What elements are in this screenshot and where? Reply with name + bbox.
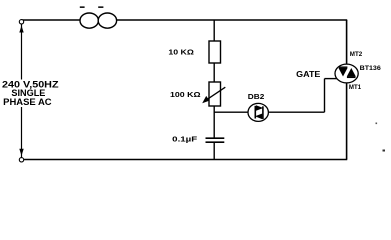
svg-text:DB2: DB2 — [248, 94, 265, 101]
diac D1 left bar — [254, 106, 256, 119]
node terminal top-left circle — [19, 20, 23, 24]
top stray dash right — [98, 6, 103, 8]
svg-text:BT136: BT136 — [360, 65, 382, 72]
capacitor C1 bottom plate — [206, 141, 225, 143]
wire top rail left segment — [22, 19, 80, 21]
wire triac MT2 vertical — [346, 20, 348, 65]
AC source arrowhead down — [19, 149, 23, 156]
wire triac MT1 vertical — [346, 83, 348, 160]
diac D1 circle — [248, 103, 268, 121]
wire between resistor and potentiometer — [213, 63, 215, 82]
stray dot bottom right — [383, 150, 386, 152]
AC source arrowhead up — [19, 26, 23, 33]
wire middle branch top — [213, 20, 215, 41]
triac Q1 circle — [335, 64, 358, 83]
wire diac to gate corner — [268, 111, 324, 113]
svg-text:MT2: MT2 — [350, 51, 363, 58]
capacitor C1 top plate — [206, 137, 225, 139]
triac Q1 bottom bar — [347, 76, 356, 78]
svg-text:0.1µF: 0.1µF — [172, 135, 198, 144]
lamp L1 bulb circle left — [80, 13, 98, 28]
resistor R1 box — [209, 41, 221, 63]
wire gate stub to triac — [325, 78, 338, 80]
stray dot right of MT1 — [376, 123, 378, 125]
triac Q1 left triangle pointing down — [339, 68, 348, 77]
triac Q1 right triangle pointing up — [347, 68, 356, 77]
svg-text:10 KΩ: 10 KΩ — [168, 48, 194, 57]
text-gap mask behind source label — [0, 80, 60, 108]
wire capacitor to bottom rail — [213, 142, 215, 159]
svg-text:MT1: MT1 — [349, 84, 362, 91]
diac D1 triangle upper pointing right — [256, 105, 263, 111]
wire potentiometer to capacitor — [213, 106, 215, 138]
wire AC source vertical line — [21, 24, 23, 158]
svg-text:100 KΩ: 100 KΩ — [170, 90, 201, 99]
diac D1 right bar — [262, 106, 264, 119]
svg-text:PHASE AC: PHASE AC — [3, 97, 52, 107]
wire gate vertical — [324, 79, 326, 113]
lamp L1 bulb circle right — [98, 13, 116, 28]
svg-text:GATE: GATE — [296, 70, 321, 79]
wire junction to diac — [214, 111, 248, 113]
potentiometer R2 wiper arrow — [205, 87, 226, 101]
triac Q1 top bar — [339, 66, 348, 68]
wire bottom rail — [24, 159, 348, 161]
potentiometer R2 box — [209, 82, 221, 106]
wire top rail right segment — [117, 19, 348, 21]
diac D1 triangle lower pointing left — [255, 114, 262, 120]
top stray dash left — [80, 6, 85, 8]
node terminal bottom-left circle — [19, 158, 23, 162]
